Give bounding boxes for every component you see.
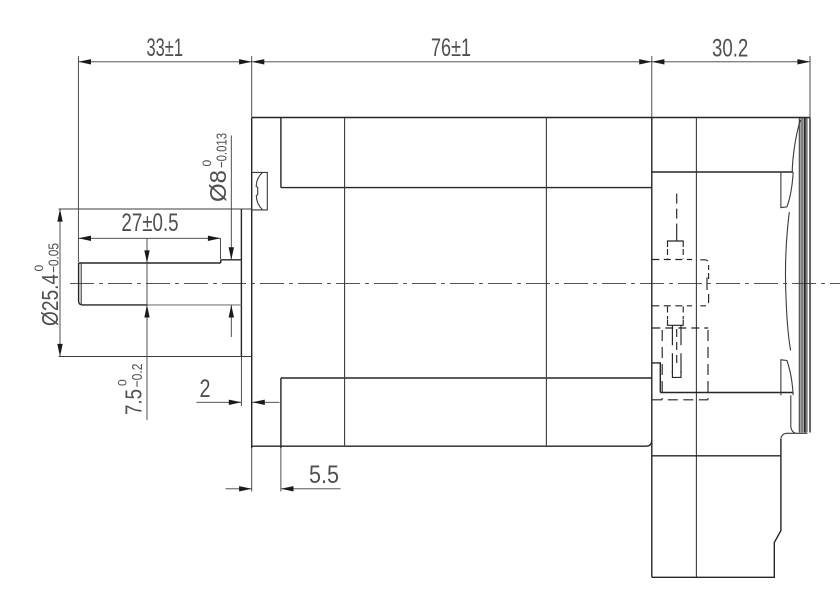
hidden line y=328 [652, 327, 708, 329]
dim extension x=251.7 top [251, 56, 253, 117]
hidden slot bottom [672, 371, 681, 377]
hidden box D left side [661, 330, 663, 400]
svg-text:−0.013: −0.013 [214, 133, 231, 168]
rear bottom block right side [652, 439, 781, 578]
front shoulder step vertical bottom [280, 378, 282, 448]
arrow 30.2 left [652, 59, 665, 64]
shaft full diameter top [221, 259, 242, 261]
dia8 dimension line upper [230, 136, 232, 260]
rear end cap stack [799, 118, 807, 433]
hidden box D bottom [652, 399, 708, 401]
svg-text:30.2: 30.2 [712, 35, 748, 63]
arrow 33 right [239, 59, 252, 64]
svg-text:−0.2: −0.2 [129, 364, 146, 388]
rear cap shelf [786, 432, 807, 434]
rear right face [809, 118, 811, 433]
arrow 2 left [229, 400, 242, 405]
front pilot boss face [240, 209, 242, 357]
front face key tab [252, 172, 267, 210]
27 dimension line [78, 237, 220, 239]
mid body joint line [545, 118, 547, 447]
shaft bottom [82, 304, 147, 306]
svg-text:Ø8: Ø8 [205, 170, 231, 202]
shaft flat top [79, 262, 221, 264]
rear housing top line [652, 171, 793, 173]
rear mid joint line [695, 118, 697, 578]
7.5 dimension line [146, 239, 148, 421]
hidden bracket lower right [700, 294, 708, 306]
hidden bracket upper right [700, 260, 708, 270]
hidden slot sides [671, 325, 673, 374]
arrow dia25.4 top [57, 209, 62, 222]
arrow 7.5 bottom [144, 305, 149, 318]
inner top line [281, 187, 652, 189]
hidden slot center dash [676, 329, 678, 367]
arrow dia8 top [229, 247, 234, 260]
arrow dia25.4 bottom [57, 344, 62, 357]
arrow 27 left [78, 236, 91, 241]
rear cap middle arc [786, 212, 791, 351]
pilot boss top edge / extension [59, 208, 252, 210]
body top outline [252, 117, 810, 119]
svg-text:Ø25.4: Ø25.4 [37, 274, 63, 326]
svg-text:5.5: 5.5 [309, 461, 339, 489]
svg-text:0: 0 [116, 379, 130, 386]
counterbore cup dashed sides (top) [667, 249, 669, 259]
inner bottom line [281, 377, 652, 379]
svg-text:76±1: 76±1 [431, 34, 471, 62]
key tab D-profile [256, 173, 262, 210]
dia8 dimension line lower [230, 305, 232, 337]
arrow 30.2 right [797, 59, 810, 64]
centerline [70, 282, 840, 284]
2 dimension left line [196, 401, 241, 403]
arrow 7.5 top [144, 250, 149, 263]
arrow dia8 bottom [229, 305, 234, 318]
label dia8 [200, 133, 231, 202]
dim extension x=78.4 [77, 56, 79, 262]
shaft bottom right (thin) [147, 304, 241, 306]
svg-text:0: 0 [32, 265, 46, 272]
svg-text:33±1: 33±1 [147, 34, 184, 62]
rear face line [651, 118, 653, 578]
top dimension line [78, 61, 810, 63]
hidden hole center dash (top) [676, 194, 678, 230]
label dia25.4 [32, 243, 63, 326]
hidden box B sides [667, 307, 669, 320]
svg-text:0: 0 [200, 160, 214, 167]
rear cap lower tab [781, 360, 793, 395]
pilot boss bottom edge / extension [59, 356, 252, 358]
arrow 2 right [252, 400, 265, 405]
hidden hole stem (top) [676, 230, 678, 241]
dia25.4 dimension line [59, 209, 61, 357]
label 7.5 [116, 364, 147, 416]
front shoulder step vertical top [280, 118, 282, 188]
body bottom outline [252, 440, 652, 446]
shaft end face [79, 263, 82, 305]
rear cap shelf corner [781, 433, 786, 438]
hidden box D right side [707, 330, 709, 400]
svg-text:2: 2 [200, 375, 211, 403]
motor body front face [251, 118, 253, 449]
svg-text:7.5: 7.5 [121, 389, 147, 415]
counterbore cup (top) [668, 241, 684, 247]
hidden bracket center tick [706, 278, 708, 291]
svg-text:−0.05: −0.05 [46, 243, 63, 273]
rear bottom block top [652, 455, 781, 457]
5.5 dimension left line [226, 488, 252, 490]
27 dim right extension [220, 238, 222, 259]
arrow 27 right [208, 236, 221, 241]
arrow 33 left [78, 59, 91, 64]
rear cap lower edge curve [791, 395, 796, 433]
hidden box B bottom cup [668, 320, 684, 326]
5.5 dimension right line [281, 488, 341, 490]
rear housing lower line [660, 392, 793, 394]
rear cap top fillet arc [792, 120, 800, 172]
arrow 76 right [639, 59, 652, 64]
svg-text:27±0.5: 27±0.5 [121, 209, 178, 237]
2 dim extension [240, 357, 242, 407]
shaft flat step [220, 260, 222, 263]
hidden line y=259.5 [652, 259, 692, 261]
arrow 76 left [252, 59, 265, 64]
rear lower notch [652, 363, 661, 393]
dim extension x=651.8 top [651, 56, 653, 117]
arrow 5.5 right [281, 486, 294, 491]
hidden line y=305.8 [652, 305, 692, 307]
5.5 dim extensions [251, 448, 253, 492]
arrow 5.5 left [239, 486, 252, 491]
rear cap upper tab [781, 172, 793, 207]
2 dimension right line [253, 401, 280, 403]
gearbox joint line [344, 118, 346, 447]
dim extension x=810 top [809, 56, 811, 117]
shaft end chamfer line [80, 263, 82, 305]
